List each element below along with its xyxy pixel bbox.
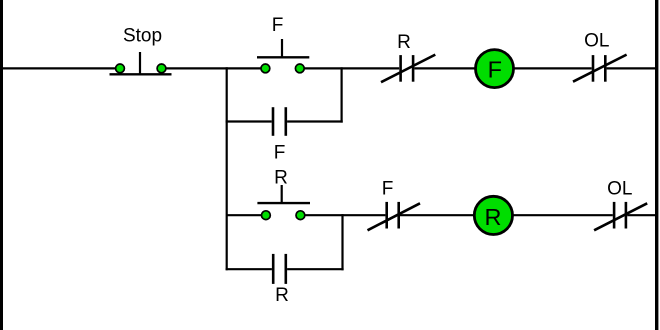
pushbutton F plunger stem xyxy=(281,39,283,57)
svg-text:Stop: Stop xyxy=(123,26,162,47)
wire rung1 rail to Stop dot1 xyxy=(3,67,120,69)
contact F rung2 slash xyxy=(368,203,421,230)
right power rail L2 xyxy=(655,0,658,330)
wire rung1 Stop dot2 to F pushbutton dot1 xyxy=(162,67,266,69)
svg-text:F: F xyxy=(274,142,286,163)
contact OL rung1 slash xyxy=(573,55,627,82)
pushbutton F (NO) bar xyxy=(257,56,309,58)
left power rail L1 xyxy=(0,0,3,330)
pushbutton R contact dot left xyxy=(262,211,271,220)
contact OL rung2 (NC) plate right xyxy=(625,202,628,229)
wire rung2 R pushbutton dot2 to F contact xyxy=(300,214,385,216)
wire rung2 branch to R pushbutton dot1 xyxy=(226,214,266,216)
pushbutton F contact dot left xyxy=(261,64,270,73)
wire rung2 coil R to OL contact xyxy=(513,214,613,216)
pushbutton R contact dot right xyxy=(296,211,305,220)
wire rung1 R contact to coil F xyxy=(414,67,476,69)
wire rung1 F pushbutton dot2 to R contact xyxy=(300,67,399,69)
contact R (NC) plate right xyxy=(412,55,415,82)
svg-text:F: F xyxy=(272,15,284,36)
contact F seal-in (NO) plate left xyxy=(272,107,275,136)
contact R (NC) slash xyxy=(381,55,435,83)
wire branch1 right segment xyxy=(287,120,343,122)
contact OL rung1 (NC) plate right xyxy=(604,55,607,82)
pushbutton Stop contact dot left xyxy=(116,64,125,73)
node branch vertical right rung1 xyxy=(341,67,343,122)
pushbutton R plunger stem xyxy=(281,185,283,203)
contact F rung2 (NC) plate right xyxy=(397,202,400,229)
svg-text:OL: OL xyxy=(584,30,609,51)
wire branch1 left segment xyxy=(226,120,272,122)
wire rung2 OL contact to right rail xyxy=(627,214,656,216)
svg-text:R: R xyxy=(485,204,502,230)
pushbutton F contact dot right xyxy=(295,64,304,73)
coil R circle xyxy=(474,196,512,234)
coil F circle xyxy=(476,50,514,88)
svg-text:F: F xyxy=(488,57,502,83)
wire branch2 right segment xyxy=(287,268,344,270)
node branch vertical right rung2 xyxy=(341,214,343,270)
svg-text:R: R xyxy=(397,32,411,53)
wire rung1 OL contact to right rail xyxy=(607,67,656,69)
contact OL rung1 (NC) plate left xyxy=(592,55,595,82)
pushbutton Stop plunger stem xyxy=(139,52,141,74)
contact R (NC) plate left xyxy=(399,55,402,82)
wire rung1 coil F to OL contact xyxy=(513,67,592,69)
contact OL rung2 slash xyxy=(594,203,647,230)
svg-text:F: F xyxy=(382,179,394,200)
node branch vertical left xyxy=(226,67,228,270)
contact F seal-in (NO) plate right xyxy=(284,107,287,136)
svg-text:R: R xyxy=(275,285,289,306)
pushbutton Stop (NC) bar xyxy=(110,73,172,75)
contact R seal-in (NO) plate right xyxy=(284,254,287,284)
svg-text:R: R xyxy=(274,167,288,188)
svg-text:OL: OL xyxy=(607,179,632,200)
wire branch2 left segment xyxy=(226,268,272,270)
contact F rung2 (NC) plate left xyxy=(385,202,388,229)
contact R seal-in (NO) plate left xyxy=(272,254,275,284)
pushbutton Stop contact dot right xyxy=(157,64,166,73)
pushbutton R (NO) bar xyxy=(257,202,310,204)
wire rung2 F contact to coil R xyxy=(400,214,474,216)
contact OL rung2 (NC) plate left xyxy=(613,202,616,229)
